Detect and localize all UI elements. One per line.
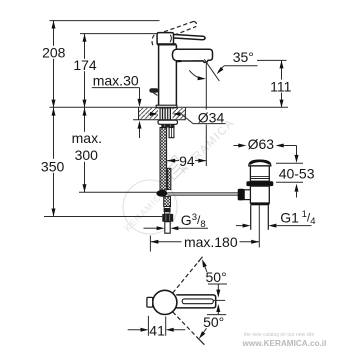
pull rod upper <box>169 128 174 138</box>
svg-text:50°: 50° <box>206 269 227 285</box>
locknut <box>161 124 174 127</box>
body base plate <box>156 105 177 108</box>
svg-text:50°: 50° <box>203 314 224 330</box>
dim 111 <box>257 59 287 61</box>
pop-up knob <box>149 88 158 93</box>
spout tip extension <box>205 63 207 167</box>
body <box>159 45 177 107</box>
dim 350 <box>53 107 55 216</box>
dim 174 <box>84 34 86 108</box>
dim G 3/8 <box>144 227 159 229</box>
svg-text:max.180: max.180 <box>184 234 238 250</box>
svg-text:max.: max. <box>72 130 102 146</box>
svg-text:max.30: max.30 <box>93 72 139 88</box>
supply hose <box>160 128 167 191</box>
top knob tab <box>147 297 153 307</box>
flange under deck <box>158 120 178 124</box>
svg-text:41: 41 <box>149 322 165 338</box>
lever raised dashed <box>152 21 196 45</box>
pull rod lower <box>167 168 171 189</box>
cartridge cap <box>157 33 173 45</box>
deck line <box>50 106 289 108</box>
ref line rod top <box>80 33 157 35</box>
top lever <box>176 295 215 308</box>
svg-text:94: 94 <box>179 153 195 169</box>
swing dashed upper <box>173 261 200 294</box>
lever rod <box>173 34 206 39</box>
svg-text:G1 1/4: G1 1/4 <box>280 209 315 227</box>
dim 40-53 <box>296 146 298 157</box>
dim 94 <box>167 160 206 162</box>
dim 35 deg <box>204 59 219 81</box>
lever centerline tick <box>213 299 225 301</box>
drain neck <box>250 166 269 181</box>
svg-text:www.KERAMICA.co.il: www.KERAMICA.co.il <box>242 339 327 348</box>
svg-text:35°: 35° <box>233 49 254 65</box>
drain centerline <box>258 205 260 247</box>
svg-text:174: 174 <box>73 57 97 73</box>
svg-text:the new catalog on our new sit: the new catalog on our new site <box>244 332 315 338</box>
dim 350 bottom line <box>44 216 162 218</box>
drain dark band <box>250 203 269 205</box>
dim G 1 1/4 <box>236 225 245 227</box>
svg-text:Ø63: Ø63 <box>248 136 275 152</box>
spout <box>172 49 212 62</box>
drain body <box>250 186 269 203</box>
drain flange dome <box>249 160 271 166</box>
svg-text:111: 111 <box>270 78 291 94</box>
svg-text:40-53: 40-53 <box>279 165 315 181</box>
dim Ø63 <box>234 145 241 147</box>
drain tailpipe <box>251 205 269 229</box>
dim max300 <box>84 107 86 192</box>
drain mounting nut <box>246 181 273 186</box>
hose end stack <box>164 197 171 207</box>
pivot housing <box>244 190 250 200</box>
ref line lever top <box>50 20 160 22</box>
svg-text:208: 208 <box>42 45 66 61</box>
hose end line <box>79 191 157 193</box>
top body circle <box>153 290 177 314</box>
dim 41 <box>148 316 165 336</box>
ball joint <box>156 190 167 197</box>
dim max180 <box>149 236 151 252</box>
svg-text:350: 350 <box>41 159 65 175</box>
svg-text:Ø34: Ø34 <box>198 110 225 126</box>
watermark stamp <box>122 117 237 234</box>
dim Ø34 <box>149 113 153 115</box>
svg-text:300: 300 <box>75 147 99 163</box>
shank <box>160 108 171 120</box>
dim 50 lower <box>207 311 226 315</box>
dim 208 <box>53 21 55 108</box>
swing dashed lower <box>173 312 200 340</box>
linkage rod <box>167 193 238 195</box>
deck <box>139 108 159 119</box>
